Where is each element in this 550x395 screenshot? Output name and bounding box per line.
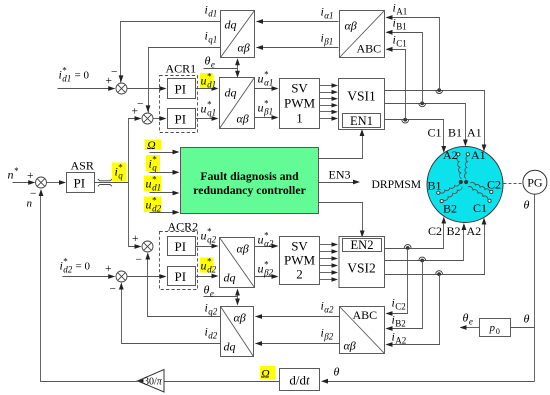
svg-text:= 0: = 0	[75, 70, 90, 82]
wire theta from PG	[524, 195, 535, 382]
sensor i_C1 tap	[402, 118, 409, 123]
svg-text:ASR: ASR	[71, 159, 94, 173]
svg-text:B1: B1	[448, 126, 462, 140]
wire u*_d1	[196, 72, 219, 91]
wire phase C1	[385, 120, 447, 154]
wire PWM gate signals 1	[320, 83, 339, 120]
node theta_e bottom stub	[204, 283, 238, 299]
wire i_A1	[386, 1, 440, 91]
wire S4 to PI4	[127, 274, 167, 279]
svg-text:A1: A1	[471, 148, 486, 162]
svg-text:u: u	[146, 177, 152, 191]
node controller input u*_d1	[144, 175, 180, 196]
sensor i_B2 tap	[419, 257, 426, 262]
svg-text:Ω: Ω	[261, 367, 270, 381]
wire i_beta2	[255, 326, 340, 346]
wire i_B2	[386, 261, 423, 331]
block ASR PI	[67, 159, 95, 193]
svg-text:θ: θ	[204, 283, 210, 297]
wire n feedback	[39, 189, 138, 382]
wire i_C2	[386, 249, 408, 316]
summing junction S0	[27, 170, 47, 210]
svg-text:αβ: αβ	[234, 311, 246, 325]
svg-text:q2: q2	[208, 307, 218, 317]
svg-text:+: +	[105, 263, 112, 275]
block PI d-axis 1	[168, 79, 196, 99]
svg-text:αβ: αβ	[237, 112, 249, 126]
svg-text:θ: θ	[463, 311, 469, 325]
svg-text:C2: C2	[428, 224, 442, 238]
block ACR1 dashed box	[160, 62, 198, 133]
wire theta to p0	[511, 312, 535, 328]
svg-text:dq: dq	[225, 86, 237, 100]
wire theta to d/dt	[321, 365, 535, 384]
wire i*_q to S2	[129, 116, 142, 182]
svg-text:−: −	[111, 67, 118, 79]
svg-text:B2: B2	[395, 319, 406, 329]
svg-text:= 0: = 0	[76, 261, 91, 273]
motor DRPMSM body	[427, 147, 503, 223]
wire i_q1 feedback	[146, 29, 221, 113]
svg-text:PWM: PWM	[284, 253, 316, 268]
svg-text:d1: d1	[62, 74, 71, 84]
svg-text:dq: dq	[224, 340, 236, 354]
svg-text:αβ: αβ	[238, 41, 250, 55]
svg-text:PI: PI	[74, 176, 86, 191]
svg-text:β1: β1	[263, 107, 273, 117]
svg-text:EN2: EN2	[351, 238, 374, 252]
svg-text:−: −	[136, 254, 143, 266]
svg-text:VSI1: VSI1	[347, 89, 376, 104]
svg-text:u: u	[201, 74, 207, 88]
sensor i_C2 tap	[404, 245, 411, 250]
node i*_d2=0 input label	[60, 257, 91, 275]
svg-text:PWM: PWM	[284, 96, 316, 111]
block VSI2	[339, 237, 385, 288]
svg-text:A1: A1	[467, 126, 482, 140]
svg-text:C1: C1	[473, 201, 487, 215]
wire u*_alpha2	[255, 231, 279, 249]
svg-text:B1: B1	[396, 22, 407, 32]
svg-text:q2: q2	[207, 235, 217, 245]
wire S0 to ASR	[47, 180, 67, 185]
svg-text:C1: C1	[428, 126, 442, 140]
summing junction S1	[106, 67, 128, 95]
winding A1 coil	[465, 156, 468, 179]
svg-text:d1: d1	[152, 183, 161, 193]
wire EN1 enable	[319, 129, 365, 159]
svg-text:u: u	[201, 102, 207, 116]
svg-text:d2: d2	[63, 265, 73, 275]
wire PWM gate signals 2	[320, 242, 339, 281]
sensor i_B1 tap	[419, 101, 426, 106]
svg-text:PI: PI	[175, 82, 187, 97]
node theta_e top stub	[204, 54, 238, 70]
svg-text:1: 1	[296, 111, 303, 126]
svg-text:VSI2: VSI2	[347, 261, 376, 276]
wire theta_e double arrow bottom	[235, 289, 240, 306]
wire i_C1	[386, 33, 407, 120]
svg-text:dq: dq	[224, 271, 236, 285]
svg-text:30/π: 30/π	[144, 376, 163, 387]
block ACR2 dashed box	[160, 220, 199, 290]
svg-text:ABC: ABC	[353, 308, 378, 322]
wire i_B1	[386, 16, 423, 104]
svg-text:EN3: EN3	[329, 168, 351, 182]
wire i*_d2 input	[63, 274, 116, 279]
winding C2 coil	[471, 182, 490, 191]
svg-text:d2: d2	[207, 265, 217, 275]
block p0	[480, 319, 511, 337]
position sensor PG	[523, 170, 547, 194]
block alphabeta/ABC transform 1	[340, 11, 385, 58]
sensor i_A2 tap	[436, 271, 443, 276]
svg-text:n: n	[8, 168, 14, 182]
wire theta_e double arrow top	[235, 58, 240, 77]
block d/dt	[280, 369, 320, 391]
limiter symbol	[95, 179, 129, 186]
svg-text:α2: α2	[324, 305, 334, 315]
node controller input i*_q	[146, 155, 180, 175]
block PI q-axis 2	[168, 237, 196, 256]
wire phase B2	[385, 223, 467, 261]
svg-text:u: u	[258, 72, 264, 86]
svg-text:θ: θ	[524, 198, 530, 212]
svg-text:A2: A2	[395, 336, 406, 346]
wire u*_beta1	[255, 99, 279, 120]
block SV PWM 1	[280, 79, 320, 129]
svg-text:α1: α1	[264, 78, 273, 88]
svg-text:PG: PG	[527, 176, 543, 190]
svg-text:2: 2	[296, 267, 303, 282]
svg-text:q: q	[152, 163, 157, 173]
node i*_q label	[112, 163, 127, 182]
wire EN3	[319, 168, 361, 185]
wire theta_e out	[460, 311, 480, 330]
svg-text:q: q	[118, 171, 123, 181]
wire phase A2	[385, 218, 487, 275]
svg-text:θ: θ	[524, 312, 530, 326]
svg-text:u: u	[201, 229, 207, 243]
svg-text:e: e	[210, 289, 214, 299]
wire i_d2 feedback	[119, 283, 221, 344]
wire i*_q to S3	[129, 183, 142, 249]
svg-text:B2: B2	[447, 224, 461, 238]
wire i_q2 feedback	[145, 253, 220, 317]
svg-text:ACR2: ACR2	[168, 220, 199, 234]
svg-text:ACR1: ACR1	[166, 62, 197, 76]
wire Omega	[165, 366, 280, 382]
wire S2 to PI2	[153, 116, 167, 121]
wire u*_alpha1	[255, 70, 279, 91]
node controller input u*_d2	[144, 196, 180, 215]
svg-text:−: −	[137, 99, 144, 111]
block dq/alphabeta current transform 1	[221, 11, 255, 58]
svg-text:DRPMSM: DRPMSM	[372, 178, 422, 191]
svg-text:e: e	[469, 317, 473, 327]
svg-text:αβ: αβ	[344, 339, 356, 353]
svg-text:SV: SV	[291, 81, 308, 96]
wire u*_q1	[196, 100, 219, 121]
svg-text:Fault diagnosis and: Fault diagnosis and	[200, 169, 299, 183]
node phase labels C1 B1 A1	[428, 126, 482, 140]
block alphabeta/dq current transform 2	[221, 307, 254, 357]
winding A2 coil	[457, 156, 462, 179]
svg-text:Ω: Ω	[147, 138, 156, 152]
sensor i_A1 tap	[436, 88, 443, 93]
wire i_alpha1	[256, 5, 339, 24]
winding B1 coil	[440, 183, 460, 193]
wire u*_q2	[196, 227, 219, 249]
svg-text:PI: PI	[175, 239, 187, 254]
wire i_beta1	[256, 31, 339, 50]
svg-text:d2: d2	[208, 331, 218, 341]
svg-text:u: u	[258, 101, 264, 115]
block PI q-axis 1	[168, 109, 196, 129]
svg-text:redundancy controller: redundancy controller	[193, 183, 306, 197]
svg-text:n: n	[27, 198, 33, 210]
svg-text:β1: β1	[323, 37, 333, 47]
wire S1 to PI1	[127, 86, 167, 91]
svg-text:θ: θ	[334, 365, 340, 379]
summing junction S3	[132, 233, 153, 266]
gain 30/pi	[138, 370, 165, 393]
block dq/alphabeta voltage transform 1	[220, 78, 255, 129]
svg-text:q1: q1	[208, 35, 217, 45]
svg-text:SV: SV	[291, 239, 308, 254]
svg-text:PI: PI	[175, 112, 187, 127]
svg-text:d1: d1	[207, 80, 216, 90]
svg-text:e: e	[211, 60, 215, 70]
svg-text:*: *	[14, 166, 19, 176]
winding C1 coil	[468, 187, 488, 200]
svg-text:EN1: EN1	[350, 114, 373, 128]
svg-text:u: u	[258, 262, 264, 276]
svg-text:u: u	[146, 198, 152, 212]
wire phase B1	[385, 104, 468, 147]
wire u*_beta2	[255, 260, 279, 279]
svg-text:α1: α1	[324, 11, 333, 21]
block SV PWM 2	[280, 237, 320, 285]
wire motor-PG shaft	[504, 183, 523, 185]
svg-text:A2: A2	[443, 148, 458, 162]
svg-text:αβ: αβ	[237, 242, 249, 256]
winding terminal circles	[437, 153, 493, 203]
svg-text:B2: B2	[443, 202, 457, 216]
svg-text:dq: dq	[225, 18, 237, 32]
svg-text:+: +	[27, 170, 34, 182]
summing junction S4	[105, 263, 127, 296]
star point dots	[459, 180, 469, 184]
svg-text:C2: C2	[395, 302, 406, 312]
svg-text:+: +	[132, 233, 139, 245]
block alphabeta/dq voltage transform 2	[220, 238, 255, 288]
svg-text:−: −	[110, 284, 117, 296]
wire EN2 enable	[319, 203, 365, 238]
block EN2	[343, 238, 382, 252]
node i*_d1=0 input label	[59, 66, 90, 84]
svg-text:0: 0	[496, 327, 500, 336]
wire phase A1	[385, 91, 487, 152]
svg-text:q1: q1	[207, 108, 216, 118]
svg-text:β2: β2	[323, 332, 333, 342]
svg-text:ABC: ABC	[357, 42, 382, 56]
svg-text:d/dt: d/dt	[289, 373, 310, 388]
svg-text:u: u	[201, 259, 207, 273]
svg-text:u: u	[258, 233, 264, 247]
node controller input Omega	[145, 138, 180, 154]
svg-text:A2: A2	[467, 224, 482, 238]
svg-text:α2: α2	[264, 239, 274, 249]
node winding labels	[428, 148, 502, 216]
wire u*_d2	[196, 257, 219, 279]
svg-text:C1: C1	[396, 39, 407, 49]
wire i_alpha2	[255, 299, 340, 319]
winding B2 coil	[443, 187, 462, 201]
node n* input	[8, 166, 36, 185]
wire i_A2	[386, 275, 440, 347]
block ABC/alphabeta transform 2	[340, 307, 385, 354]
svg-text:d1: d1	[208, 9, 217, 19]
svg-text:PI: PI	[175, 269, 187, 284]
wire phase C2	[385, 217, 447, 249]
svg-text:B1: B1	[428, 179, 442, 193]
svg-text:p: p	[489, 322, 496, 334]
svg-text:αβ: αβ	[345, 19, 357, 33]
node phase labels C2 B2 A2	[428, 224, 481, 238]
block EN1	[343, 114, 381, 129]
svg-text:β2: β2	[263, 268, 273, 278]
block VSI1	[339, 79, 385, 130]
wire i*_d1 input	[58, 86, 116, 91]
block fault diagnosis and redundancy controller	[181, 148, 319, 214]
svg-text:θ: θ	[205, 54, 211, 68]
node DRPMSM label	[372, 178, 422, 191]
svg-text:A1: A1	[396, 7, 407, 17]
block PI d-axis 2	[168, 267, 196, 286]
svg-text:C2: C2	[487, 178, 501, 192]
wire i_d1 feedback	[119, 3, 221, 83]
summing junction S2	[132, 99, 154, 125]
